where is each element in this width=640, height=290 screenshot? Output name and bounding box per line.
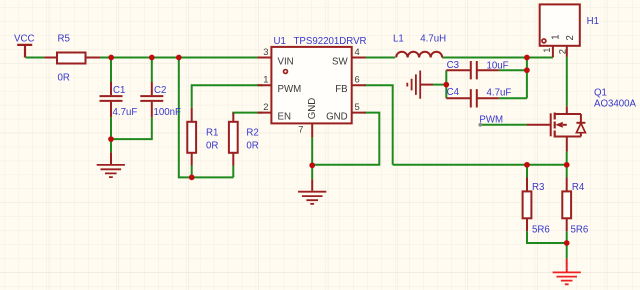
wire U1 SW to L1 [364, 57, 395, 59]
svg-text:0R: 0R [206, 141, 218, 152]
svg-text:2: 2 [557, 49, 568, 54]
svg-text:C1: C1 [113, 85, 125, 96]
wire C1 top [110, 58, 112, 83]
inductor L1 [396, 52, 442, 58]
svg-text:GND: GND [326, 112, 348, 123]
svg-text:0R: 0R [246, 141, 258, 152]
svg-text:H1: H1 [587, 16, 599, 27]
junction node R4 top Q1 source [564, 162, 570, 168]
svg-text:4.7uF: 4.7uF [113, 107, 138, 118]
resistor R1 [187, 108, 196, 166]
capacitor C1 [100, 82, 123, 117]
wire L1 to H1 pin1 [442, 57, 553, 59]
svg-text:PWM: PWM [479, 115, 503, 126]
wire R5 to U1 VIN rail [100, 57, 263, 59]
svg-text:C2: C2 [154, 85, 166, 96]
svg-text:Q1: Q1 [594, 88, 607, 99]
svg-text:U1: U1 [274, 36, 286, 47]
svg-text:PWM: PWM [278, 84, 302, 95]
svg-text:GND: GND [307, 98, 318, 120]
capacitor C4 [446, 89, 499, 107]
svg-text:EN: EN [278, 112, 291, 123]
wire C1 bottom to ground [110, 117, 112, 152]
wire C3 C4 right to rail [499, 58, 527, 99]
svg-text:4: 4 [355, 46, 360, 57]
svg-text:L1: L1 [393, 34, 404, 45]
wire R3 R4 bottom to ground [527, 231, 567, 258]
ground under U1 pin7 [298, 179, 326, 204]
junction node R4 bottom gnd [564, 240, 570, 246]
wire C2 bottom to C1 junction [111, 117, 152, 139]
svg-text:R3: R3 [532, 182, 544, 193]
junction node rail-H1 [524, 55, 530, 61]
svg-text:0R: 0R [58, 73, 70, 84]
junction node C3C4 left gnd [443, 82, 449, 88]
svg-text:4.7uH: 4.7uH [420, 34, 446, 45]
svg-text:10uF: 10uF [487, 61, 509, 72]
svg-text:1: 1 [541, 48, 552, 53]
svg-text:4.7uF: 4.7uF [487, 88, 512, 99]
ground bottom right red [553, 259, 581, 285]
svg-text:R4: R4 [572, 182, 585, 193]
capacitor C3 [446, 61, 499, 79]
resistor R4 [562, 178, 571, 232]
junction node C3 right [524, 67, 530, 73]
junction node GND pin7 [309, 162, 315, 168]
junction node C1-C2-gnd [108, 136, 114, 142]
wire C3 C4 left vertical [433, 70, 446, 98]
svg-text:FB: FB [335, 84, 347, 95]
svg-text:AO3400A: AO3400A [594, 99, 637, 110]
wire VCC to R5 [26, 57, 45, 59]
svg-text:C4: C4 [447, 87, 460, 98]
svg-text:R5: R5 [58, 34, 70, 45]
svg-text:2: 2 [263, 101, 268, 112]
connector H1 [540, 4, 580, 57]
wire R4 top and Q1 source [566, 152, 568, 178]
svg-text:5R6: 5R6 [571, 224, 589, 235]
wire R1 top to U1 PWM pin [192, 85, 263, 108]
svg-text:100nF: 100nF [154, 107, 182, 118]
svg-text:C3: C3 [447, 60, 459, 71]
transistor Q1 AO3400A [527, 106, 585, 151]
wire R2 top to U1 EN pin [233, 113, 263, 115]
svg-text:R1: R1 [206, 128, 218, 139]
wire sense net horizontal FB to Q1 source [393, 164, 567, 166]
svg-text:5: 5 [355, 101, 360, 112]
svg-text:7: 7 [298, 123, 303, 134]
ground under C1 [97, 152, 125, 177]
svg-text:1: 1 [551, 34, 562, 39]
svg-text:6: 6 [355, 74, 360, 85]
junction node R1-R2 bottom [189, 175, 195, 181]
wire VIN rail down to R1 R2 bottom net [179, 58, 234, 178]
wire H1 pin2 to Q1 drain [566, 57, 568, 106]
wire R2 bottom [232, 166, 234, 178]
junction node VIN-R1R2 [176, 55, 182, 61]
wire R1 bottom [191, 166, 193, 178]
svg-text:1: 1 [263, 74, 268, 85]
net label PWM [478, 115, 503, 127]
svg-text:5R6: 5R6 [532, 224, 550, 235]
svg-text:3: 3 [263, 46, 268, 57]
svg-text:2: 2 [565, 35, 576, 40]
ground sideways near C3 [407, 71, 433, 99]
svg-text:R2: R2 [246, 128, 258, 139]
wire C2 top [151, 58, 153, 83]
resistor R3 [523, 178, 532, 232]
svg-text:SW: SW [332, 57, 348, 68]
junction node R3 top [524, 162, 530, 168]
wire U1 GND pin5 to ground net [313, 113, 379, 165]
wire R3 top [526, 165, 528, 178]
resistor R5 [44, 53, 100, 64]
capacitor C2 [140, 82, 163, 117]
wire U1 GND pin7 down [311, 137, 313, 179]
wire U1 FB to sense net [364, 85, 393, 165]
wire PWM label to Q1 gate [481, 124, 528, 126]
svg-text:VCC: VCC [14, 34, 34, 45]
power flag VCC [14, 34, 34, 58]
op-amp U1 TPS92201DRVR box [258, 47, 366, 137]
resistor R2 [229, 113, 238, 166]
junction node VIN-C1 [108, 55, 114, 61]
svg-text:VIN: VIN [278, 57, 294, 68]
junction node VIN-C2 [149, 55, 155, 61]
